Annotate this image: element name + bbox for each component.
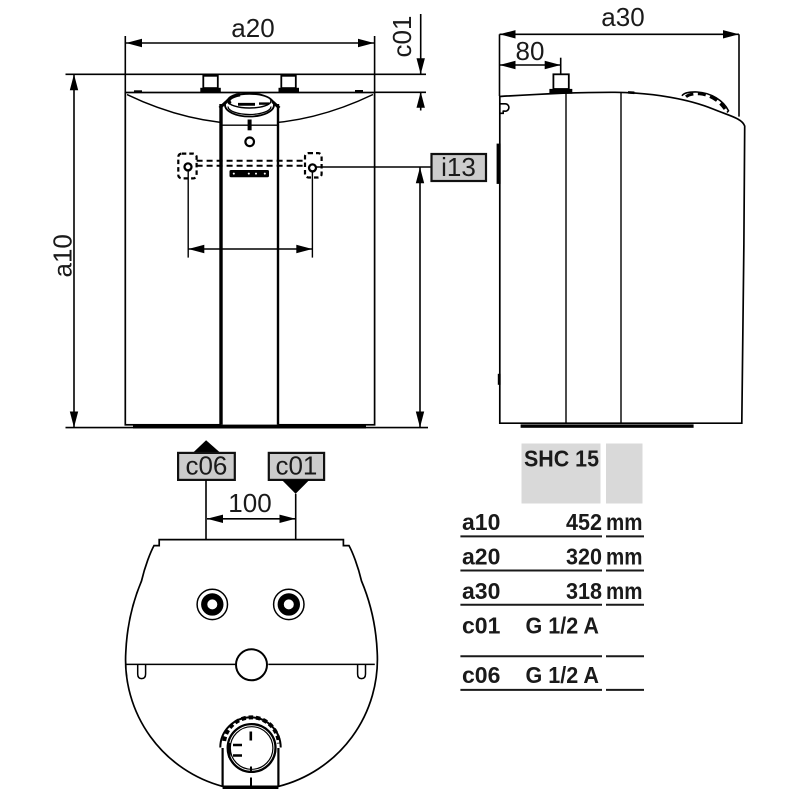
- svg-text:100: 100: [228, 488, 271, 518]
- svg-text:320: 320: [566, 544, 602, 570]
- svg-text:c01: c01: [462, 613, 501, 639]
- svg-text:SHC 15: SHC 15: [524, 446, 599, 472]
- svg-text:a10: a10: [48, 234, 78, 277]
- svg-text:G 1/2 A: G 1/2 A: [526, 662, 600, 688]
- svg-text:i13: i13: [441, 152, 476, 182]
- svg-text:a20: a20: [462, 544, 500, 570]
- svg-text:mm: mm: [606, 544, 643, 570]
- svg-text:c06: c06: [185, 451, 227, 481]
- svg-text:G 1/2 A: G 1/2 A: [526, 613, 600, 639]
- svg-text:a10: a10: [462, 509, 500, 535]
- svg-text:c06: c06: [462, 662, 500, 688]
- svg-text:c01: c01: [275, 451, 317, 481]
- svg-text:a20: a20: [231, 13, 274, 43]
- svg-text:318: 318: [566, 578, 602, 604]
- svg-text:mm: mm: [606, 509, 643, 535]
- svg-text:452: 452: [566, 509, 602, 535]
- svg-text:a30: a30: [462, 578, 500, 604]
- svg-text:80: 80: [516, 36, 545, 66]
- svg-text:a30: a30: [601, 2, 644, 32]
- svg-text:mm: mm: [606, 578, 643, 604]
- svg-text:c01: c01: [387, 16, 417, 58]
